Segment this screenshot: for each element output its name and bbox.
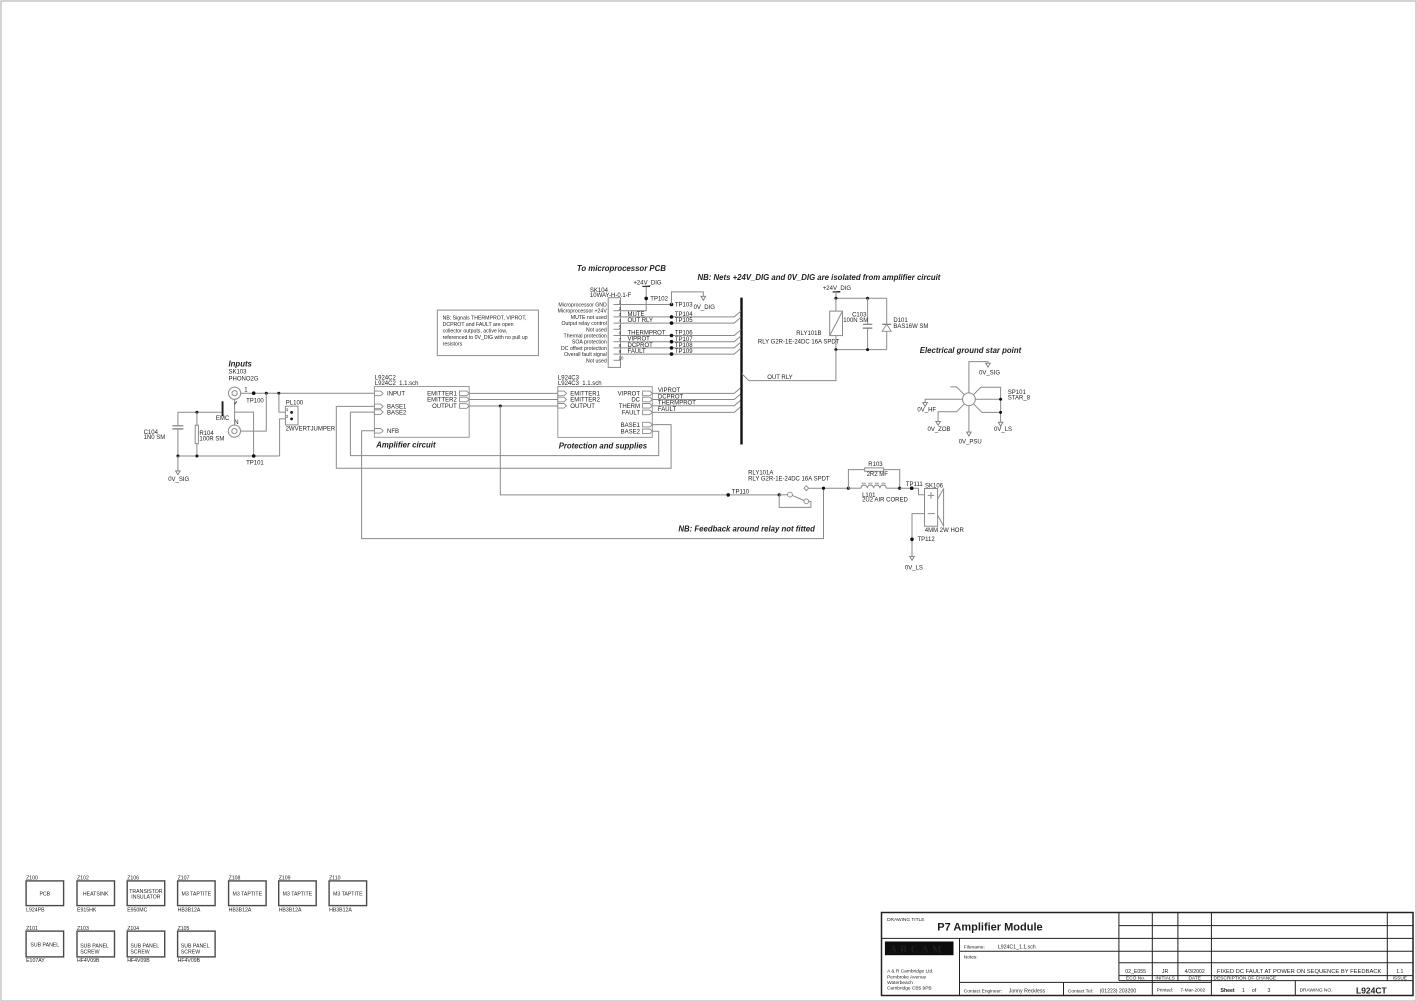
svg-text:TP106: TP106 <box>675 331 693 337</box>
svg-text:RLY G2R-1E-24DC 16A SPDT: RLY G2R-1E-24DC 16A SPDT <box>748 477 830 483</box>
connector SK103 phono socket pin 1 <box>229 387 249 399</box>
junction OUTPUT tap <box>499 405 502 408</box>
svg-text:TP101: TP101 <box>246 461 264 467</box>
svg-text:+24V_DIG: +24V_DIG <box>633 280 662 286</box>
junction phono N to signal <box>265 392 268 395</box>
svg-text:SUB PANEL: SUB PANEL <box>80 943 109 949</box>
field Contact Engineer <box>964 989 1046 995</box>
header To microprocessor PCB <box>577 264 666 273</box>
svg-text:M3 TAPTITE: M3 TAPTITE <box>333 891 363 897</box>
svg-text:L924CT: L924CT <box>1356 985 1388 995</box>
svg-text:Printed:: Printed: <box>1157 988 1174 994</box>
connector PL100 2WVERTJUMPER <box>279 393 336 456</box>
svg-text:SOA protection: SOA protection <box>572 340 607 346</box>
svg-text:EMITTER1: EMITTER1 <box>570 392 600 398</box>
svg-text:(01223) 203200: (01223) 203200 <box>1100 989 1137 995</box>
wire phono N up to signal line <box>241 393 267 431</box>
svg-text:JR: JR <box>1162 969 1169 975</box>
svg-text:BAS16W SM: BAS16W SM <box>893 324 928 330</box>
svg-text:2U2 AIR CORED: 2U2 AIR CORED <box>862 498 908 504</box>
svg-text:THERM: THERM <box>619 404 640 410</box>
title block grid <box>882 913 1414 996</box>
testpoint TP104 <box>670 312 694 319</box>
diode D101 BAS16W SM <box>882 298 928 349</box>
svg-text:0V_SIG: 0V_SIG <box>979 370 1000 376</box>
svg-text:Notes:: Notes: <box>964 955 978 961</box>
wire OUT RLY from bus to coil <box>742 350 836 382</box>
pin BASE2 of L924C3 <box>621 429 653 436</box>
revision row 02_E055 <box>1125 969 1403 975</box>
pin 5 Not used <box>586 324 622 333</box>
pin 7 SOA protection <box>572 337 622 346</box>
wire star south 0V_PSU <box>959 406 982 446</box>
EMC chassis bar <box>216 401 230 422</box>
svg-text:TP110: TP110 <box>732 490 750 496</box>
testpoint TP105 <box>670 318 694 325</box>
svg-text:OUTPUT: OUTPUT <box>570 404 595 410</box>
wire +24V rail top <box>836 297 887 299</box>
svg-text:NB: Feedback around relay not: NB: Feedback around relay not fitted <box>678 524 815 533</box>
svg-text:OUTPUT: OUTPUT <box>432 404 457 410</box>
connector SK103 phono socket pin N <box>228 420 240 437</box>
svg-text:0V_ZOB: 0V_ZOB <box>928 427 951 433</box>
svg-text:Protection and supplies: Protection and supplies <box>559 442 648 451</box>
svg-text:PL100: PL100 <box>286 400 304 406</box>
svg-text:0V_PSU: 0V_PSU <box>959 439 982 445</box>
pin OUTPUT of L924C2 <box>432 404 469 411</box>
pin FAULT of L924C3 <box>622 410 653 417</box>
field Filename <box>964 944 1036 950</box>
part Z110 M3 TAPTITE <box>329 875 367 913</box>
part Z108 M3 TAPTITE <box>229 875 267 913</box>
svg-text:OUT RLY: OUT RLY <box>767 375 792 381</box>
junction star east rail <box>999 398 1002 401</box>
capacitor C104 1N0 SM <box>144 412 184 456</box>
svg-text:Overall fault signal: Overall fault signal <box>564 352 607 358</box>
svg-text:M3 TAPTITE: M3 TAPTITE <box>283 891 313 897</box>
svg-text:FIXED DC FAULT AT POWER ON SEQ: FIXED DC FAULT AT POWER ON SEQUENCE BY F… <box>1217 969 1382 975</box>
wire star northeast to 0V_LS rail <box>973 387 1000 422</box>
svg-text:HF4V09B: HF4V09B <box>77 958 100 964</box>
svg-text:8: 8 <box>619 343 622 348</box>
wire BASE2 routing <box>350 412 658 456</box>
field Notes <box>964 955 978 961</box>
pin 8 DC offset protection <box>561 343 622 352</box>
pin 1 Microprocessor GND <box>558 300 621 309</box>
svg-text:resistors: resistors <box>443 342 463 348</box>
pin OUTPUT of L924C3 <box>558 404 596 411</box>
svg-text:100R SM: 100R SM <box>199 437 224 443</box>
pin NFB of L924C2 <box>374 429 399 436</box>
svg-text:9: 9 <box>619 349 622 354</box>
svg-text:Microprocessor +24V: Microprocessor +24V <box>558 309 608 315</box>
wire star northwest stub <box>950 387 964 395</box>
svg-text:2: 2 <box>286 414 289 419</box>
header Inputs <box>229 360 253 369</box>
testpoint TP109 <box>670 349 694 356</box>
pin BASE1 of L924C2 <box>374 404 407 411</box>
svg-text:0V_HF: 0V_HF <box>917 408 936 414</box>
wire to TP111 <box>900 488 925 495</box>
svg-text:3: 3 <box>619 312 622 317</box>
wire C104 R104 to EMC <box>178 411 222 413</box>
svg-text:SUB PANEL: SUB PANEL <box>181 943 210 949</box>
ground 0V_DIG <box>694 296 716 311</box>
svg-text:referenced to 0V_DIG with no p: referenced to 0V_DIG with no pull up <box>443 335 528 341</box>
svg-text:M3 TAPTITE: M3 TAPTITE <box>233 891 263 897</box>
pin DC of L924C3 <box>631 397 652 404</box>
svg-text:DCPROT and FAULT are open: DCPROT and FAULT are open <box>443 322 514 328</box>
wire star north 0V_SIG <box>969 362 1000 393</box>
svg-text:HF4V09B: HF4V09B <box>178 958 201 964</box>
star point SP101 STAR_8 <box>963 390 1031 406</box>
svg-text:E915HK: E915HK <box>77 907 97 913</box>
wire THERMPROT to bus <box>652 400 741 407</box>
svg-text:SCREW: SCREW <box>181 950 200 956</box>
wire speaker minus to ground <box>912 514 925 557</box>
connector SK106 speaker <box>925 483 965 534</box>
pin EMITTER1 of L924C2 <box>427 391 469 398</box>
part Z109 M3 TAPTITE <box>279 875 317 913</box>
svg-text:7-Mar-2002: 7-Mar-2002 <box>1180 988 1205 994</box>
note NB feedback not fitted <box>678 524 815 533</box>
svg-text:TP104: TP104 <box>675 312 693 318</box>
svg-text:Pembroke Avenue: Pembroke Avenue <box>887 974 926 980</box>
wire pin1 GND to TP103 <box>621 304 672 306</box>
junction C103 top <box>866 297 869 300</box>
testpoint TP106 <box>670 331 694 338</box>
svg-text:VIPROT: VIPROT <box>658 388 681 394</box>
pin EMITTER1 of L924C3 <box>558 391 601 398</box>
wire star southwest 0V_ZOB <box>928 404 965 433</box>
junction coil bottom <box>834 348 837 351</box>
power +24V_DIG relay <box>823 286 852 298</box>
svg-text:1: 1 <box>1242 988 1245 994</box>
ground 0V_LS speaker <box>905 556 923 571</box>
pin THERM of L924C3 <box>619 404 653 411</box>
wire pin9 FAULT to bus <box>621 348 741 355</box>
junction star southeast rail <box>999 411 1002 414</box>
header Electrical ground star point <box>920 346 1022 355</box>
svg-text:HB3B12A: HB3B12A <box>229 907 252 913</box>
junction C104 bottom <box>176 455 179 458</box>
note box NB signals open collector <box>437 310 538 356</box>
svg-text:SUB PANEL: SUB PANEL <box>130 943 159 949</box>
svg-text:OUT RLY: OUT RLY <box>628 318 653 324</box>
svg-text:INSULATOR: INSULATOR <box>131 895 160 901</box>
svg-text:DESCRIPTION OF CHANGE: DESCRIPTION OF CHANGE <box>1214 976 1277 982</box>
svg-text:DCPROT: DCPROT <box>628 343 654 349</box>
testpoint TP112 <box>910 537 935 543</box>
svg-text:EMITTER2: EMITTER2 <box>427 398 457 404</box>
svg-text:TP111: TP111 <box>906 482 923 488</box>
svg-text:EMC: EMC <box>216 416 230 422</box>
testpoint TP102 <box>644 296 668 302</box>
wire relay bypass loop <box>779 495 811 508</box>
svg-text:FAULT: FAULT <box>658 407 677 413</box>
pin 2 Microprocessor +24V <box>558 306 622 315</box>
pin 6 Thermal protection <box>564 331 622 340</box>
pin 4 Output relay control <box>562 318 622 327</box>
svg-text:Contact Tel:: Contact Tel: <box>1068 989 1093 995</box>
svg-text:6: 6 <box>619 331 622 336</box>
svg-text:THERMPROT: THERMPROT <box>628 330 666 336</box>
part Z107 M3 TAPTITE <box>178 875 216 913</box>
svg-text:2WVERTJUMPER: 2WVERTJUMPER <box>286 427 336 433</box>
svg-text:Electrical ground star point: Electrical ground star point <box>920 346 1022 355</box>
junction L101 left <box>847 487 850 490</box>
wire pin6 THERMPROT to bus <box>621 330 741 337</box>
label DRAWING TITLE <box>887 917 924 923</box>
svg-text:EMITTER1: EMITTER1 <box>427 392 457 398</box>
svg-text:3: 3 <box>1268 988 1271 994</box>
svg-text:of: of <box>1252 988 1257 994</box>
svg-text:HF4V09B: HF4V09B <box>127 958 150 964</box>
wire input signal phono to amplifier INPUT <box>241 392 375 394</box>
wire sleeve to ground <box>235 412 254 456</box>
svg-text:2: 2 <box>619 306 622 311</box>
svg-text:INPUT: INPUT <box>387 392 405 398</box>
bus vertical <box>740 298 742 445</box>
wire FAULT to bus <box>652 407 741 414</box>
svg-text:THERMPROT: THERMPROT <box>658 401 696 407</box>
svg-text:FAULT: FAULT <box>622 411 641 417</box>
pin BASE2 of L924C2 <box>374 410 407 417</box>
svg-text:Not used: Not used <box>586 358 607 364</box>
svg-text:E950MC: E950MC <box>127 907 147 913</box>
svg-text:STAR_8: STAR_8 <box>1008 395 1031 401</box>
svg-text:R103: R103 <box>868 462 883 468</box>
pin INPUT of L924C2 <box>374 391 405 398</box>
svg-text:D101: D101 <box>893 318 908 324</box>
svg-text:P7 Amplifier Module: P7 Amplifier Module <box>937 921 1042 933</box>
testpoint TP107 <box>670 337 694 344</box>
wire coil bottom rail <box>836 349 887 351</box>
svg-text:10: 10 <box>619 355 624 360</box>
svg-text:TP103: TP103 <box>675 303 693 309</box>
svg-text:BASE2: BASE2 <box>621 430 641 436</box>
svg-text:INITIALS: INITIALS <box>1155 976 1174 982</box>
pin EMITTER2 of L924C2 <box>427 397 469 404</box>
connector SK104 10WAY-H-0.1-F <box>590 288 632 368</box>
svg-text:DC offset protection: DC offset protection <box>561 346 607 352</box>
svg-text:1: 1 <box>286 407 289 412</box>
svg-text:PCB: PCB <box>39 891 50 897</box>
svg-text:M3 TAPTITE: M3 TAPTITE <box>182 891 212 897</box>
part Z103 SUB PANEL SCREW <box>77 926 115 964</box>
svg-text:E107AY: E107AY <box>26 958 45 964</box>
svg-text:ISSUE: ISSUE <box>1393 976 1407 982</box>
svg-text:0V_LS: 0V_LS <box>994 427 1012 433</box>
svg-text:4MM 2W HOR: 4MM 2W HOR <box>925 528 965 534</box>
svg-text:VIPROT: VIPROT <box>628 337 651 343</box>
inductor L101 2U2 AIR CORED <box>848 483 908 504</box>
wire VIPROT to bus <box>652 388 741 395</box>
block U-amp L924C2 Amplifier circuit <box>374 375 469 449</box>
svg-text:DCPROT: DCPROT <box>658 394 684 400</box>
svg-text:NB: Signals THERMPROT, VIPROT,: NB: Signals THERMPROT, VIPROT, <box>443 316 527 322</box>
svg-text:MUTE: MUTE <box>628 312 645 318</box>
svg-text:Thermal protection: Thermal protection <box>564 334 607 340</box>
svg-text:Contact Engineer:: Contact Engineer: <box>964 989 1002 995</box>
wire OUTPUT down to relay <box>500 406 779 495</box>
pin VIPROT of L924C3 <box>618 391 653 398</box>
part Z104 SUB PANEL SCREW <box>127 926 165 964</box>
wire pin8 DCPROT to bus <box>621 342 741 349</box>
svg-text:TP100: TP100 <box>246 398 264 404</box>
svg-text:L924C1_1.1.sch: L924C1_1.1.sch <box>998 944 1036 950</box>
svg-text:DRAWING TITLE: DRAWING TITLE <box>887 917 924 923</box>
junction feedback tap <box>822 487 825 490</box>
wire pin7 VIPROT to bus <box>621 336 741 343</box>
pin BASE1 of L924C3 <box>621 422 653 429</box>
svg-text:L924PB: L924PB <box>26 907 45 913</box>
title P7 Amplifier Module <box>937 921 1042 933</box>
svg-text:RLY101B: RLY101B <box>796 331 821 337</box>
svg-text:+24V_DIG: +24V_DIG <box>823 286 852 292</box>
svg-text:0V_SIG: 0V_SIG <box>168 477 189 483</box>
pin 3 MUTE not used <box>571 312 622 321</box>
svg-text:SK103: SK103 <box>229 370 248 376</box>
svg-text:1.1: 1.1 <box>1396 969 1403 975</box>
svg-text:DATE: DATE <box>1188 976 1200 982</box>
field Sheet 1 of 3 <box>1221 988 1271 994</box>
svg-text:Amplifier circuit: Amplifier circuit <box>375 441 436 450</box>
testpoint TP111 <box>906 482 923 490</box>
svg-text:Cambridge CB5 9PB: Cambridge CB5 9PB <box>887 986 932 992</box>
svg-text:TP108: TP108 <box>675 343 693 349</box>
wire DCPROT to bus <box>652 394 741 401</box>
capacitor C103 100N SM <box>843 298 872 349</box>
svg-text:5: 5 <box>619 324 622 329</box>
junction PL100 pin1 to signal <box>277 392 280 395</box>
svg-text:TP105: TP105 <box>675 318 693 324</box>
address A and R Cambridge <box>887 969 933 992</box>
svg-text:SCREW: SCREW <box>80 950 99 956</box>
pin 9 Overall fault signal <box>564 349 621 358</box>
svg-text:2R2 MF: 2R2 MF <box>867 472 889 478</box>
svg-text:NFB: NFB <box>387 429 399 435</box>
svg-text:HB3B12A: HB3B12A <box>279 907 302 913</box>
svg-text:TP109: TP109 <box>675 349 693 355</box>
svg-text:PHONO2G: PHONO2G <box>229 377 259 383</box>
field Contact Tel <box>1068 989 1136 995</box>
svg-text:0V_LS: 0V_LS <box>905 566 923 572</box>
svg-text:ECO No.: ECO No. <box>1126 976 1145 982</box>
resistor R104 100R SM <box>195 412 224 456</box>
wire EMITTER1 between blocks <box>469 392 558 394</box>
part Z101 SUB PANEL <box>26 926 64 964</box>
junction L101 right <box>898 487 901 490</box>
testpoint TP101 <box>246 454 264 466</box>
svg-text:Microprocessor GND: Microprocessor GND <box>558 303 607 309</box>
svg-text:SUB PANEL: SUB PANEL <box>30 942 59 948</box>
svg-text:Waterbeach: Waterbeach <box>887 980 913 986</box>
svg-text:TP102: TP102 <box>650 296 668 302</box>
svg-text:Filename:: Filename: <box>964 944 985 950</box>
ground 0V_SIG input <box>168 456 189 483</box>
wire pin4 OUT RLY to bus <box>621 317 741 324</box>
svg-text:DC: DC <box>631 398 640 404</box>
svg-text:0V_DIG: 0V_DIG <box>694 305 716 311</box>
junction R104 top <box>195 411 198 414</box>
svg-text:FAULT: FAULT <box>628 349 647 355</box>
svg-text:100N SM: 100N SM <box>843 318 868 324</box>
resistor R103 2R2 MF <box>848 462 899 488</box>
wire pin3 MUTE to bus <box>621 311 741 318</box>
svg-text:Not used: Not used <box>586 327 607 333</box>
svg-text:NB: Nets +24V_DIG and 0V_DIG a: NB: Nets +24V_DIG and 0V_DIG are isolate… <box>698 273 941 282</box>
testpoint TP103 <box>670 303 694 309</box>
svg-text:To microprocessor PCB: To microprocessor PCB <box>577 264 666 273</box>
svg-text:7: 7 <box>619 337 622 342</box>
svg-text:BASE2: BASE2 <box>387 410 407 416</box>
svg-text:1: 1 <box>619 300 622 305</box>
wire star east <box>975 398 1000 400</box>
wire relay output <box>809 487 849 489</box>
testpoint TP108 <box>670 343 694 350</box>
wire NFB feedback routing <box>362 431 824 539</box>
part Z102 HEATSINK <box>77 875 115 913</box>
wire OUTPUT between blocks <box>469 405 558 407</box>
junction R104 bottom <box>195 455 198 458</box>
wire TP103 to 0V_DIG <box>672 292 704 305</box>
connector SK103 body line <box>234 399 237 425</box>
svg-text:HB3B12A: HB3B12A <box>329 907 352 913</box>
svg-text:VIPROT: VIPROT <box>618 392 641 398</box>
field DRAWING NO L924CT <box>1300 985 1388 995</box>
svg-text:ARCAM: ARCAM <box>890 945 945 956</box>
svg-text:MUTE not used: MUTE not used <box>571 315 607 321</box>
connector SK103 PHONO2G labels <box>229 370 259 383</box>
testpoint TP110 <box>726 490 749 497</box>
pin EMITTER2 of L924C3 <box>558 397 601 404</box>
part Z106 TRANSISTOR INSULATOR <box>127 875 165 913</box>
svg-text:SCREW: SCREW <box>130 950 149 956</box>
revision header row <box>1126 976 1407 982</box>
svg-text:TP112: TP112 <box>918 537 936 543</box>
note NB nets isolated <box>698 273 941 282</box>
svg-text:Sheet: Sheet <box>1221 988 1235 994</box>
power +24V_DIG top <box>633 280 662 286</box>
part Z105 SUB PANEL SCREW <box>178 926 216 964</box>
junction coil top <box>834 297 837 300</box>
svg-text:HEATSINK: HEATSINK <box>83 891 109 897</box>
svg-text:Jonny Reckless: Jonny Reckless <box>1009 989 1046 995</box>
svg-text:HB3B12A: HB3B12A <box>178 907 201 913</box>
logo ARCAM <box>885 942 954 956</box>
svg-text:EMITTER2: EMITTER2 <box>570 398 600 404</box>
svg-text:1N0 SM: 1N0 SM <box>144 435 166 441</box>
wire signal ground bus <box>178 455 280 457</box>
ground 0V_LS star <box>994 422 1012 433</box>
svg-text:4/3/2002: 4/3/2002 <box>1185 969 1205 975</box>
svg-text:A & R Cambridge Ltd.: A & R Cambridge Ltd. <box>887 969 933 975</box>
wire pin2 to +24V_DIG <box>621 287 647 311</box>
wire BASE1 routing <box>336 406 671 468</box>
svg-text:Output relay control: Output relay control <box>562 321 607 327</box>
wire star southeast <box>973 404 1000 413</box>
svg-text:DRAWING NO.: DRAWING NO. <box>1300 988 1333 994</box>
svg-text:BASE1: BASE1 <box>621 423 641 429</box>
svg-text:4: 4 <box>619 318 622 323</box>
svg-text:RLY G2R-1E-24DC 16A SPDT: RLY G2R-1E-24DC 16A SPDT <box>758 340 840 346</box>
relay coil RLY101B <box>758 298 843 349</box>
wire EMITTER2 between blocks <box>469 399 558 401</box>
relay contact RLY101A <box>748 471 830 504</box>
part Z100 PCB <box>26 875 64 913</box>
junction C103 bottom <box>866 348 869 351</box>
